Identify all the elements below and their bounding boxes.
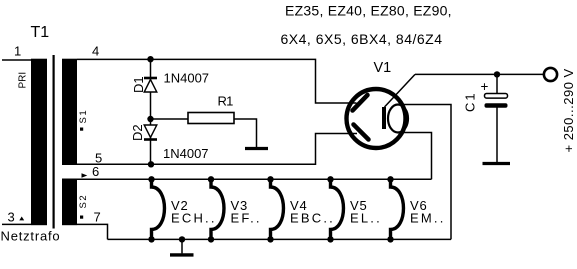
tube V5 heater [327,176,343,242]
svg-text:+: + [481,79,489,94]
svg-text:1: 1 [14,44,21,59]
node junction C1/output [494,71,500,77]
terminal output [544,68,557,81]
wire pin 1 [2,59,31,61]
node junction D2/wire5 [148,161,154,167]
resistor R1 [188,113,234,124]
wire pin 7 [77,224,108,239]
diode D1 [144,78,157,92]
tube V1 anode (lower) [354,125,369,140]
svg-text:D2: D2 [130,124,145,141]
ground (heater bus) [170,236,194,255]
svg-text:EBC..: EBC.. [290,211,335,226]
svg-text:ECH..: ECH.. [171,211,217,226]
transformer T1 primary winding bar [31,59,47,226]
svg-text:EL..: EL.. [350,211,382,226]
tube V6 heater [387,176,403,242]
capacitor C1 [485,74,508,162]
winding S2 polarity square [80,216,83,219]
wire R1 to ground [234,119,257,148]
svg-text:EM..: EM.. [410,211,446,226]
svg-text:6: 6 [92,164,99,179]
wire V1 heater top to bottom bus [400,105,451,240]
ground (R1) [245,147,268,150]
svg-text:PRI: PRI [18,72,29,89]
tube V1 envelope [347,89,406,148]
tube V1 heater circle [388,105,408,133]
svg-text:7: 7 [94,210,101,225]
transformer secondary winding S2 bar [62,179,77,226]
node junction wire4/D1 [147,56,153,62]
transformer core [53,55,55,229]
svg-text:Netztrafo: Netztrafo [1,229,61,244]
wire pin 5 [77,134,357,165]
wire pin 4 [77,59,357,103]
pin 3 marker triangle [19,217,24,221]
ground (C1) [483,162,511,165]
svg-text:T1: T1 [31,24,50,41]
wire node to R1 [151,118,189,120]
wire pin 6 heater bus top [77,178,432,180]
svg-text:3: 3 [8,210,15,225]
svg-text:EZ35, EZ40, EZ80, EZ90,: EZ35, EZ40, EZ80, EZ90, [285,3,452,19]
svg-text:EF..: EF.. [231,211,262,226]
svg-text:S2: S2 [78,194,89,209]
pin 6 marker triangle [82,173,88,178]
node junction D1/D2/R1 [147,116,153,122]
tube V1 anode (upper) [353,95,368,111]
transformer secondary winding S1 bar [62,59,77,165]
svg-text:4: 4 [92,44,99,59]
tube V3 heater [208,176,224,242]
svg-text:C1: C1 [463,91,478,112]
svg-text:6X4, 6X5, 6BX4, 84/6Z4: 6X4, 6X5, 6BX4, 84/6Z4 [281,31,443,47]
wire cathode lead (diagonal) [385,74,416,107]
wire heater bottom bus [108,238,452,240]
wire V1 heater bottom to wire 6 [400,133,432,180]
svg-text:1N4007: 1N4007 [164,71,210,86]
svg-text:R1: R1 [218,94,234,109]
winding S1 polarity square [80,128,83,131]
diode D2 [144,125,157,140]
svg-text:D1: D1 [131,76,146,93]
wire output B+ [415,73,544,75]
tube V2 heater [148,176,164,242]
wire D1-D2 branch [150,59,152,164]
wire pin 3 [2,223,31,225]
svg-text:+ 250...290 V: + 250...290 V [561,68,576,152]
svg-text:S1: S1 [78,109,89,124]
svg-text:V1: V1 [374,60,392,76]
tube V1 cathode bar [382,107,386,129]
tube V4 heater [267,176,283,242]
svg-text:1N4007: 1N4007 [163,146,209,161]
